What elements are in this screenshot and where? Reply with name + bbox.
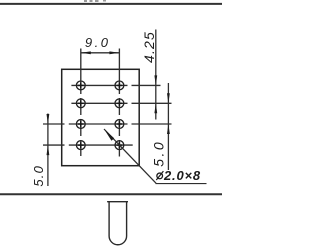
leader text diameter symbol [156, 171, 163, 180]
svg-text:2.0×8: 2.0×8 [163, 168, 201, 183]
dimension 9.0: dimension line [81, 52, 120, 54]
hole 8 (row4 col2) [115, 141, 124, 150]
dimension 4.25: up arrowhead at row 2 [154, 103, 157, 113]
svg-text:9.0: 9.0 [85, 35, 111, 50]
hole 6 (row3 col2) [115, 120, 124, 129]
centerline row 2 [71, 102, 171, 104]
cropped text remnants above top border [84, 0, 106, 2]
leader line to hole 8 [104, 129, 156, 183]
dimension 4.25: dimension line [155, 30, 157, 120]
svg-text:5.0: 5.0 [150, 140, 166, 167]
top border line [0, 3, 222, 5]
centerline column 2 (with 9.0 extension) [118, 49, 120, 157]
centerline column 1 (with 9.0 extension) [80, 49, 82, 157]
plate outline (top view) [62, 69, 140, 165]
hole 4 (row2 col2) [115, 99, 124, 108]
leader arrowhead [104, 129, 114, 141]
bottom border line [0, 193, 222, 195]
centerline row 4 [43, 144, 133, 146]
hole 3 (row2 col1) [76, 99, 85, 108]
centerline row 3 [43, 123, 172, 125]
dimension 5.0 right: up arrowhead at row 3 [167, 124, 170, 134]
hole center cross marks [78, 83, 122, 149]
dimension 5.0 left: down arrowhead at row 3 [47, 114, 50, 124]
hole 7 (row4 col1) [76, 141, 85, 150]
hole 5 (row3 col1) [76, 120, 85, 129]
dimension 5.0 left: dimension line [47, 114, 49, 187]
centerline row 1 [71, 84, 160, 86]
dimension 5.0 right: down arrowhead at row 2 [167, 93, 170, 103]
dimension 5.0 left: up arrowhead at row 4 [47, 145, 50, 155]
hole 2 (row1 col2) [115, 81, 124, 90]
pin side view: body with round bottom [109, 202, 127, 245]
pin side view: top edge [107, 201, 128, 203]
dimension 9.0: left arrowhead [81, 51, 91, 54]
leader underline [156, 183, 207, 185]
hole 1 (row1 col1) [76, 81, 85, 90]
dimension 9.0: right arrowhead [109, 51, 119, 54]
dimension 4.25: down arrowhead at row 1 [154, 75, 157, 85]
svg-text:5.0: 5.0 [31, 165, 46, 187]
dimension 5.0 right: dimension line [167, 83, 169, 170]
svg-text:4.25: 4.25 [141, 31, 157, 63]
